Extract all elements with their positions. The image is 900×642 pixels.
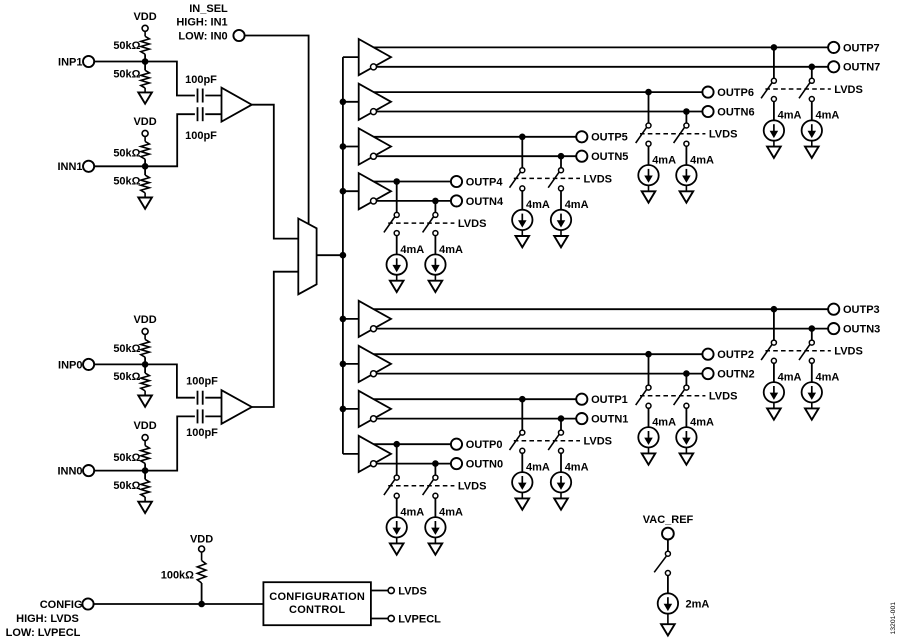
terminal OUTP4	[451, 176, 503, 189]
switch S6P (LVDS termination P)	[636, 123, 651, 146]
terminal OUTN4	[451, 195, 504, 208]
power VDD (INP1 pull-up)	[133, 11, 156, 37]
resistor 50k (INP1 to VDD)	[113, 36, 149, 54]
wire switch to current source I3N	[811, 363, 813, 382]
svg-text:OUTN1: OUTN1	[591, 414, 628, 426]
power VDD (INN1 pull-up)	[133, 116, 156, 142]
svg-text:OUTN3: OUTN3	[843, 324, 880, 336]
wire resistor to INP1 node	[144, 54, 146, 70]
wire driver A4 P output	[374, 181, 451, 183]
wire mux output to bus	[317, 254, 343, 256]
terminal OUTP5	[576, 131, 628, 144]
current source I0P 4mA	[387, 507, 425, 538]
svg-text:50kΩ: 50kΩ	[113, 148, 140, 160]
wire driver A5 N output	[377, 155, 577, 157]
wire switch to current source I5P	[521, 191, 523, 210]
output driver A3	[359, 301, 391, 337]
wire bus to driver A6 input	[343, 101, 359, 103]
ground (current source I2N)	[680, 448, 694, 465]
wire driver A2 P output	[374, 353, 703, 355]
ground (current source I4P)	[390, 275, 404, 292]
terminal INP1	[58, 56, 94, 69]
svg-text:OUTN4: OUTN4	[466, 196, 504, 208]
svg-text:LVDS: LVDS	[834, 84, 863, 96]
svg-text:VDD: VDD	[133, 116, 156, 128]
terminal OUTN6	[702, 106, 754, 119]
svg-text:CONFIGURATION: CONFIGURATION	[269, 591, 365, 603]
wire OUTN3 tap to switch	[811, 329, 813, 341]
wire OUTN7 tap to switch	[811, 67, 813, 79]
svg-text:4mA: 4mA	[439, 244, 463, 256]
wire switch to current source I7N	[811, 102, 813, 121]
wire INN1 to coupling cap	[94, 114, 195, 166]
terminal VAC_REF	[643, 514, 694, 539]
svg-text:VDD: VDD	[133, 420, 156, 432]
terminal CONFIG	[6, 598, 94, 639]
node bus tap driver A4	[340, 188, 347, 195]
terminal INN0	[57, 465, 94, 478]
ground (current source I7N)	[805, 141, 819, 158]
resistor 100k (CONFIG to VDD)	[161, 561, 206, 584]
current source I2P 4mA	[638, 417, 676, 448]
node OUTP7 tap	[771, 44, 778, 51]
wire buffer A0 output to mux input 0	[252, 272, 298, 407]
power VDD (CONFIG pull-up)	[190, 534, 213, 561]
svg-text:4mA: 4mA	[565, 199, 589, 211]
node OUTP4 tap	[393, 178, 400, 185]
wire OUTN2 tap to switch	[685, 374, 687, 386]
wire switch to current source I1N	[560, 453, 562, 472]
current source I0N 4mA	[425, 507, 463, 538]
node INP0 bias junction	[142, 361, 149, 368]
wire IN_SEL to mux select	[245, 36, 309, 225]
current source I5P 4mA	[512, 199, 550, 230]
switch S0N (LVDS termination N)	[423, 475, 438, 498]
wire distribution bus (vertical)	[342, 57, 344, 454]
wire resistor to INN0 node	[144, 463, 146, 479]
svg-text:INN0: INN0	[57, 466, 82, 478]
configuration control block U2	[263, 582, 371, 625]
node OUTP3 tap	[771, 306, 778, 313]
wire driver A1 N output	[377, 418, 577, 420]
node CONFIG pull-up junction	[198, 601, 205, 608]
svg-text:OUTP7: OUTP7	[843, 42, 880, 54]
node OUTN1 tap	[558, 415, 565, 422]
wire resistor to INP0 node	[144, 357, 146, 373]
wire cap C4 to buffer A0	[205, 415, 221, 417]
ground (current source I6N)	[680, 185, 694, 202]
svg-text:LVDS: LVDS	[709, 391, 738, 403]
svg-text:HIGH: LVDS: HIGH: LVDS	[16, 613, 79, 625]
node INP1 bias junction	[142, 58, 149, 65]
svg-text:4mA: 4mA	[439, 507, 463, 519]
wire OUTP4 tap to switch	[396, 182, 398, 213]
wire cap C3 to buffer A0	[205, 397, 221, 399]
output driver A1	[359, 391, 391, 427]
terminal OUTP1	[576, 394, 628, 407]
wire driver A7 P output	[374, 46, 828, 48]
node OUTN4 tap	[432, 198, 439, 205]
wire LVDS control (dashed) driver A1	[514, 440, 580, 442]
wire OUTN5 tap to switch	[560, 156, 562, 168]
svg-text:OUTN0: OUTN0	[466, 459, 503, 471]
wire CONFIG to configuration control box	[94, 603, 264, 605]
wire driver A6 P output	[374, 91, 703, 93]
current source I7N 4mA	[802, 110, 840, 141]
ground (current source I7P)	[767, 141, 781, 158]
ground (I_VAC)	[661, 614, 675, 636]
svg-text:4mA: 4mA	[652, 417, 676, 429]
ground (current source I1N)	[554, 493, 568, 510]
wire OUTN4 tap to switch	[434, 201, 436, 213]
wire cap C2 to buffer A1	[205, 113, 221, 115]
wire driver A0 P output	[374, 443, 451, 445]
wire buffer A1 output to mux input 1	[252, 105, 298, 239]
current source I1P 4mA	[512, 462, 550, 493]
ground (INP1 divider)	[138, 88, 152, 104]
wire cap C1 to buffer A1	[205, 95, 221, 97]
node bus tap driver A5	[340, 143, 347, 150]
wire LVDS control (dashed) driver A3	[765, 350, 830, 352]
svg-text:CONTROL: CONTROL	[289, 604, 345, 616]
ground (current source I1P)	[516, 493, 530, 510]
svg-text:50kΩ: 50kΩ	[113, 176, 140, 188]
capacitor C3 100pF	[186, 375, 218, 404]
wire switch to current source I3P	[773, 363, 775, 382]
svg-text:LVDS: LVDS	[458, 481, 487, 493]
terminal OUTN0	[451, 458, 503, 471]
terminal INP0	[58, 359, 94, 372]
power VDD (INP0 pull-up)	[133, 314, 156, 340]
wire LVDS control (dashed) driver A6	[640, 133, 705, 135]
svg-text:2mA: 2mA	[686, 598, 710, 610]
svg-text:OUTN5: OUTN5	[591, 151, 628, 163]
pin LVDS (configuration output)	[388, 586, 427, 598]
resistor 50k (INP1 to GND)	[113, 68, 149, 88]
svg-text:100pF: 100pF	[185, 130, 217, 142]
svg-text:VAC_REF: VAC_REF	[643, 514, 694, 526]
svg-text:4mA: 4mA	[778, 110, 802, 122]
wire OUTN6 tap to switch	[685, 112, 687, 124]
wire switch to current source I2P	[648, 408, 650, 427]
wire bus to driver A2 input	[343, 363, 359, 365]
terminal OUTP6	[702, 87, 754, 100]
svg-text:13201-001: 13201-001	[890, 602, 897, 635]
terminal OUTP0	[451, 439, 503, 452]
svg-text:LVDS: LVDS	[834, 346, 863, 358]
wire switch to current source I0P	[396, 498, 398, 517]
svg-text:INP1: INP1	[58, 56, 82, 68]
svg-text:VDD: VDD	[133, 11, 156, 23]
ground (current source I3N)	[805, 403, 819, 420]
svg-text:OUTN6: OUTN6	[717, 106, 754, 118]
switch S2N (LVDS termination N)	[674, 385, 689, 408]
switch S0P (LVDS termination P)	[384, 475, 399, 498]
current source I3P 4mA	[764, 372, 802, 403]
svg-text:4mA: 4mA	[690, 417, 714, 429]
svg-text:100pF: 100pF	[186, 427, 218, 439]
switch S4P (LVDS termination P)	[384, 212, 399, 235]
resistor 50k (INN1 to VDD)	[113, 141, 149, 159]
wire switch to current source I6N	[685, 146, 687, 165]
svg-text:4mA: 4mA	[816, 110, 840, 122]
wire VAC_REF to switch	[667, 540, 669, 552]
ground (current source I2P)	[642, 448, 656, 465]
wire switch to current source I_VAC	[667, 576, 669, 594]
node OUTN2 tap	[683, 370, 690, 377]
wire driver A5 P output	[374, 136, 576, 138]
current source I4N 4mA	[425, 244, 463, 275]
wire bus to driver A4 input	[343, 190, 359, 192]
wire OUTP6 tap to switch	[648, 92, 650, 123]
label LVDS driver A0	[458, 481, 487, 493]
switch S2P (LVDS termination P)	[636, 385, 651, 408]
svg-text:4mA: 4mA	[400, 507, 424, 519]
ground (current source I0P)	[390, 538, 404, 555]
svg-text:LVDS: LVDS	[584, 173, 613, 185]
wire INP0 to coupling cap	[94, 364, 195, 397]
wire driver A3 P output	[374, 308, 828, 310]
wire driver A2 N output	[377, 373, 703, 375]
svg-text:OUTN2: OUTN2	[717, 369, 754, 381]
current source I5N 4mA	[551, 199, 589, 230]
wire bus to driver A7 input	[343, 56, 359, 58]
ground (current source I5P)	[516, 230, 530, 247]
wire driver A6 N output	[377, 111, 703, 113]
label LVDS driver A7	[834, 84, 863, 96]
svg-text:LVDS: LVDS	[584, 436, 613, 448]
wire bus to driver A5 input	[343, 146, 359, 148]
node OUTP0 tap	[393, 441, 400, 448]
terminal OUTN7	[828, 61, 880, 73]
current source I4P 4mA	[387, 244, 425, 275]
svg-text:4mA: 4mA	[526, 462, 550, 474]
label LVDS driver A5	[584, 173, 613, 185]
terminal OUTP7	[828, 42, 880, 54]
switch S5P (LVDS termination P)	[510, 168, 525, 191]
wire OUTP0 tap to switch	[396, 444, 398, 475]
svg-text:4mA: 4mA	[778, 372, 802, 384]
node OUTN0 tap	[432, 460, 439, 467]
terminal OUTN3	[828, 323, 880, 336]
output driver A6	[359, 84, 391, 120]
ground (current source I3P)	[767, 403, 781, 420]
switch S7P (LVDS termination P)	[761, 78, 776, 101]
svg-text:LVPECL: LVPECL	[398, 614, 441, 626]
wire resistor to CONFIG node	[201, 583, 203, 604]
label LVDS driver A6	[709, 129, 738, 141]
current source I2N 4mA	[676, 417, 714, 448]
svg-text:100pF: 100pF	[186, 375, 218, 387]
switch S7N (LVDS termination N)	[799, 78, 814, 101]
svg-text:CONFIG: CONFIG	[40, 599, 83, 611]
wire switch to current source I4N	[434, 236, 436, 255]
svg-text:LOW: IN0: LOW: IN0	[178, 30, 227, 42]
switch S3N (LVDS termination N)	[799, 340, 814, 363]
svg-text:LVDS: LVDS	[709, 129, 738, 141]
svg-text:50kΩ: 50kΩ	[113, 40, 140, 52]
label LVDS driver A1	[584, 436, 613, 448]
output driver A4	[359, 173, 391, 209]
output driver A0	[359, 436, 391, 472]
svg-text:INP0: INP0	[58, 359, 82, 371]
node INN0 bias junction	[142, 467, 149, 474]
svg-text:50kΩ: 50kΩ	[113, 480, 140, 492]
svg-text:LOW: LVPECL: LOW: LVPECL	[6, 627, 81, 639]
svg-text:OUTP0: OUTP0	[466, 439, 503, 451]
output driver A5	[359, 128, 391, 164]
wire switch to current source I4P	[396, 236, 398, 255]
wire switch to current source I6P	[648, 146, 650, 165]
terminal INN1	[57, 161, 94, 174]
switch S1P (LVDS termination P)	[510, 430, 525, 453]
svg-text:4mA: 4mA	[400, 244, 424, 256]
terminal OUTN2	[702, 368, 754, 381]
wire switch to current source I2N	[685, 408, 687, 427]
ground (INN0 divider)	[138, 497, 152, 513]
svg-text:4mA: 4mA	[690, 154, 714, 166]
current source I6P 4mA	[638, 154, 676, 185]
svg-text:OUTP6: OUTP6	[717, 87, 754, 99]
power VDD (INN0 pull-up)	[133, 420, 156, 446]
wire driver A4 N output	[377, 200, 451, 202]
resistor 50k (INN0 to GND)	[113, 479, 149, 497]
svg-text:LVDS: LVDS	[398, 586, 427, 598]
svg-text:INN1: INN1	[57, 161, 82, 173]
wire OUTP2 tap to switch	[648, 354, 650, 385]
svg-text:OUTP4: OUTP4	[466, 176, 504, 188]
pin LVPECL (configuration output)	[388, 614, 441, 626]
wire U2 LVPECL output stub	[371, 618, 388, 620]
capacitor C4 100pF	[186, 409, 218, 439]
resistor 50k (INP0 to VDD)	[113, 339, 149, 357]
svg-text:OUTP1: OUTP1	[591, 394, 628, 406]
wire LVDS control (dashed) driver A5	[514, 177, 580, 179]
svg-text:IN_SEL: IN_SEL	[189, 3, 228, 15]
wire OUTN1 tap to switch	[560, 419, 562, 431]
svg-text:4mA: 4mA	[526, 199, 550, 211]
svg-text:50kΩ: 50kΩ	[113, 371, 140, 383]
wire LVDS control (dashed) driver A4	[388, 222, 454, 224]
svg-text:HIGH: IN1: HIGH: IN1	[176, 16, 227, 28]
terminal OUTP3	[828, 304, 880, 317]
svg-text:4mA: 4mA	[565, 462, 589, 474]
wire U2 LVDS output stub	[371, 590, 388, 592]
svg-text:50kΩ: 50kΩ	[113, 68, 140, 80]
svg-text:OUTN7: OUTN7	[843, 62, 880, 74]
output driver A2	[359, 346, 391, 382]
input buffer A1 (IN1)	[222, 88, 252, 122]
switch S6N (LVDS termination N)	[674, 123, 689, 146]
wire driver A0 N output	[377, 463, 451, 465]
wire resistor to INN1 node	[144, 159, 146, 175]
capacitor C2 100pF	[185, 107, 217, 142]
input buffer A0 (IN0)	[222, 390, 252, 424]
node bus tap driver A6	[340, 99, 347, 106]
node OUTN3 tap	[809, 325, 816, 332]
wire switch to current source I0N	[434, 498, 436, 517]
node OUTN5 tap	[558, 153, 565, 160]
label LVDS driver A3	[834, 346, 863, 358]
svg-text:50kΩ: 50kΩ	[113, 452, 140, 464]
svg-text:100pF: 100pF	[185, 74, 217, 86]
mux U1 (2:1 input select)	[298, 219, 316, 295]
node INN1 bias junction	[142, 163, 149, 170]
svg-text:4mA: 4mA	[816, 372, 840, 384]
terminal OUTN1	[576, 413, 628, 426]
svg-text:OUTP3: OUTP3	[843, 304, 880, 316]
wire switch to current source I5N	[560, 191, 562, 210]
node bus tap driver A3	[340, 316, 347, 323]
wire LVDS control (dashed) driver A2	[640, 395, 705, 397]
node OUTP6 tap	[645, 89, 652, 96]
ground (current source I6P)	[642, 185, 656, 202]
ground (current source I4N)	[429, 275, 443, 292]
current source I3N 4mA	[802, 372, 840, 403]
svg-text:OUTP2: OUTP2	[717, 349, 754, 361]
node bus tap driver A1	[340, 406, 347, 413]
label figure number 13201-001	[890, 602, 897, 635]
wire OUTP7 tap to switch	[773, 47, 775, 78]
label LVDS driver A4	[458, 218, 487, 230]
wire driver A7 N output	[377, 66, 829, 68]
svg-text:50kΩ: 50kΩ	[113, 343, 140, 355]
node bus tap driver A2	[340, 361, 347, 368]
resistor 50k (INP0 to GND)	[113, 371, 149, 391]
node OUTP5 tap	[519, 134, 526, 141]
svg-text:OUTP5: OUTP5	[591, 132, 628, 144]
ground (current source I5N)	[554, 230, 568, 247]
svg-text:4mA: 4mA	[652, 154, 676, 166]
terminal OUTN5	[576, 151, 628, 164]
current source I1N 4mA	[551, 462, 589, 493]
wire switch to current source I7P	[773, 102, 775, 121]
switch S1N (LVDS termination N)	[548, 430, 563, 453]
ground (INP0 divider)	[138, 391, 152, 407]
ground (current source I0N)	[429, 538, 443, 555]
wire LVDS control (dashed) driver A0	[388, 485, 454, 487]
node mux output on bus	[340, 252, 347, 259]
wire INP1 to coupling cap	[94, 62, 195, 96]
svg-text:VDD: VDD	[133, 314, 156, 326]
capacitor C1 100pF	[185, 74, 217, 102]
wire INN0 to coupling cap	[94, 416, 195, 470]
node OUTN7 tap	[809, 64, 816, 71]
resistor 50k (INN0 to VDD)	[113, 446, 149, 464]
wire LVDS control (dashed) driver A7	[765, 88, 830, 90]
node OUTN6 tap	[683, 108, 690, 115]
wire bus to driver A3 input	[343, 318, 359, 320]
wire OUTP5 tap to switch	[521, 137, 523, 168]
wire driver A3 N output	[377, 328, 829, 330]
switch S4N (LVDS termination N)	[423, 212, 438, 235]
wire bus to driver A0 input	[343, 453, 359, 455]
current source I_VAC 2mA	[658, 593, 710, 613]
switch S_VAC	[654, 551, 670, 575]
terminal IN_SEL	[176, 3, 244, 43]
wire switch to current source I1P	[521, 453, 523, 472]
resistor 50k (INN1 to GND)	[113, 175, 149, 193]
wire OUTP3 tap to switch	[773, 309, 775, 340]
wire bus to driver A1 input	[343, 408, 359, 410]
svg-text:LVDS: LVDS	[458, 218, 487, 230]
wire driver A1 P output	[374, 398, 576, 400]
ground (INN1 divider)	[138, 193, 152, 209]
switch S3P (LVDS termination P)	[761, 340, 776, 363]
switch S5N (LVDS termination N)	[548, 168, 563, 191]
current source I6N 4mA	[676, 154, 714, 185]
current source I7P 4mA	[764, 110, 802, 141]
